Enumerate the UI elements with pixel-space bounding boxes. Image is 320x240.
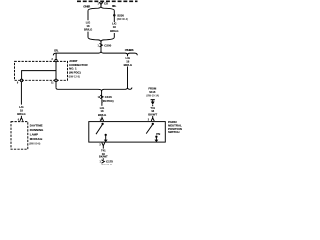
wire label T41 18 BK/WT (starter)	[99, 149, 108, 159]
wire drop to joint connector top pin	[55, 53, 57, 59]
svg-text:BK/WT: BK/WT	[148, 113, 157, 117]
svg-text:(8W-30-2): (8W-30-2)	[117, 18, 128, 21]
wire from arrow down to pin 2	[152, 105, 154, 106]
module edge dashed line (top)	[77, 0, 138, 2]
svg-text:LAMP: LAMP	[30, 133, 38, 137]
from S115 feed label	[146, 87, 159, 98]
connector C200	[98, 41, 112, 47]
svg-text:C200: C200	[104, 43, 111, 47]
wire from pin 9 down to DRL module	[20, 82, 22, 105]
wire C200 down to junction line A	[100, 47, 102, 52]
wire from pin 11 down	[55, 82, 57, 88]
wire C106 down to switch pin 1	[101, 99, 103, 106]
joint connector label	[69, 59, 89, 79]
wire label T41 18 BK/WT (from S115)	[148, 106, 157, 117]
junction line A with peak to C200 and end drops	[53, 52, 137, 56]
pin 1 (park/neutral switch)	[100, 118, 104, 122]
svg-text:(IN PDC): (IN PDC)	[102, 99, 114, 103]
splice S230	[113, 13, 128, 21]
svg-text:RUNNING: RUNNING	[30, 128, 44, 132]
svg-text:S230: S230	[117, 13, 124, 17]
svg-text:BR/LG: BR/LG	[17, 112, 25, 116]
wire label L/G 18 BR/LG (to switch)	[98, 106, 106, 117]
pin 3 (park/neutral switch bottom)	[99, 143, 104, 147]
daytime running lamp module box (dashed)	[11, 122, 28, 150]
svg-text:BR/LG: BR/LG	[98, 113, 106, 117]
svg-text:18: 18	[20, 108, 23, 112]
pin 9 (joint connector bottom left)	[17, 79, 23, 85]
park/neutral position switch label	[168, 120, 182, 134]
from arrow	[151, 100, 155, 105]
junction line B gathering to C106	[56, 88, 132, 91]
svg-text:MODULE: MODULE	[30, 137, 43, 141]
svg-text:BK/WT: BK/WT	[99, 155, 108, 159]
daytime running lamp module label	[29, 123, 44, 145]
svg-text:SWITCH: SWITCH	[168, 130, 179, 134]
svg-text:18: 18	[113, 25, 116, 29]
connector C106	[98, 91, 114, 103]
park/neutral position switch box	[89, 122, 166, 143]
switch contact left (pin1 to pin3)	[96, 123, 108, 142]
wire label L/G 18 BR/LG (left)	[84, 21, 92, 32]
svg-text:C175: C175	[106, 160, 113, 164]
svg-text:DRL: DRL	[112, 4, 117, 8]
svg-text:18: 18	[87, 24, 90, 28]
svg-text:DAYTIME: DAYTIME	[30, 123, 43, 127]
pin 2 (joint connector top)	[52, 59, 58, 62]
wire from pin 3 down	[102, 146, 104, 149]
wire label L/G 18 BR/LG (right)	[110, 22, 118, 33]
others wire down	[127, 55, 129, 57]
switch contact right (pin2, P/N)	[146, 123, 160, 142]
svg-text:DRL: DRL	[54, 49, 59, 53]
svg-text:18: 18	[101, 109, 104, 113]
wire label L/G 18 BR/LG (to DRL module)	[17, 105, 25, 116]
bus bar inside joint connector	[22, 62, 56, 79]
svg-text:(8W-10-14): (8W-10-14)	[146, 95, 159, 98]
pin 2 (park/neutral switch)	[148, 118, 154, 122]
wire left branch	[87, 11, 89, 21]
wire from module to connector C8	[100, 1, 102, 4]
connector C8	[98, 2, 109, 7]
joint connector no. 1 box (dashed)	[15, 61, 68, 80]
wire label L/G 18 BR/LG (others)	[124, 56, 132, 67]
gather brace into C200	[88, 37, 114, 41]
pin 6 (DRL module)	[18, 118, 23, 122]
svg-text:BR/LG: BR/LG	[124, 63, 132, 67]
connector C175 (bottom, cut)	[100, 160, 114, 168]
svg-text:(IN PDC): (IN PDC)	[69, 71, 81, 75]
svg-text:PN: PN	[156, 132, 160, 136]
svg-text:OTHER: OTHER	[83, 5, 90, 9]
svg-text:BR/LG: BR/LG	[110, 29, 118, 33]
svg-text:BR/LG: BR/LG	[84, 28, 92, 32]
svg-text:(8W-50-6): (8W-50-6)	[29, 142, 40, 145]
pin 11 (joint connector bottom right)	[51, 79, 57, 84]
wire right branch	[113, 11, 115, 22]
svg-text:OTHERS: OTHERS	[125, 48, 134, 52]
spread brace to two branch wires	[88, 7, 114, 11]
svg-text:C8: C8	[104, 2, 108, 6]
svg-text:S115: S115	[149, 90, 156, 94]
svg-text:(8W-12-8): (8W-12-8)	[69, 76, 80, 79]
